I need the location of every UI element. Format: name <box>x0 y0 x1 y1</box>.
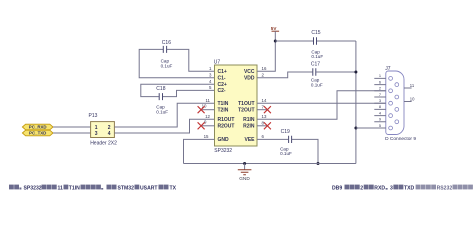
svg-text:0.1uF: 0.1uF <box>311 82 323 87</box>
wire PC_TXD to P13 pin3 <box>53 132 91 134</box>
wire stub pin8 R2IN <box>257 125 268 127</box>
svg-text:2: 2 <box>379 86 381 91</box>
svg-text:15: 15 <box>204 134 209 139</box>
IC U7 SP3232 <box>202 59 267 154</box>
svg-text:C2+: C2+ <box>218 82 227 88</box>
svg-text:7: 7 <box>379 92 381 97</box>
svg-text:T1OUT: T1OUT <box>238 101 254 107</box>
svg-text:T1IN: T1IN <box>218 101 229 107</box>
wire P13 pin2 to U7 T1IN <box>114 103 214 127</box>
svg-text:VEE: VEE <box>244 137 255 143</box>
wire junction to DB9 pin5 <box>356 127 386 129</box>
svg-text:Header 2X2: Header 2X2 <box>90 141 117 147</box>
svg-text:1: 1 <box>379 73 381 78</box>
svg-text:R1OUT: R1OUT <box>218 117 235 123</box>
svg-text:SP3232: SP3232 <box>24 185 42 191</box>
node C17 GND junction <box>354 71 357 74</box>
svg-text:SP3232: SP3232 <box>214 148 232 154</box>
svg-text:0.1uF: 0.1uF <box>311 54 323 59</box>
svg-text:T1IN: T1IN <box>69 185 80 191</box>
svg-text:10: 10 <box>202 103 207 108</box>
svg-text:14: 14 <box>262 98 267 103</box>
svg-text:STM32: STM32 <box>118 185 135 191</box>
wire P13 pin4 to U7 R1OUT <box>114 119 214 133</box>
wire stub pin10 T2IN <box>201 109 215 111</box>
svg-text:C2-: C2- <box>218 88 226 94</box>
svg-text:C15: C15 <box>311 30 320 36</box>
wire VCC pin16 to 5V <box>257 41 275 71</box>
svg-text:TXD: TXD <box>404 185 415 191</box>
svg-text:C18: C18 <box>156 86 165 92</box>
no-ERC marker pin8 <box>264 122 271 129</box>
svg-text:9: 9 <box>379 117 381 122</box>
svg-text:P13: P13 <box>89 113 98 119</box>
svg-text:C19: C19 <box>281 129 290 135</box>
svg-text:T2IN: T2IN <box>218 108 229 114</box>
wire bottom ground rail <box>184 163 356 165</box>
svg-text:PC_RXD: PC_RXD <box>29 125 47 130</box>
power 5V <box>271 26 279 41</box>
svg-text:C1+: C1+ <box>218 69 227 75</box>
capacitor C19 <box>257 129 318 163</box>
wire U7 pin15 GND to bottom rail <box>184 139 215 163</box>
svg-text:8: 8 <box>379 104 381 109</box>
node C19 ground junction <box>317 162 320 165</box>
node DB9 pin5 junction <box>354 127 357 130</box>
svg-text:2: 2 <box>360 185 363 191</box>
no-ERC marker pin10 <box>198 106 205 113</box>
svg-text:VDD: VDD <box>244 76 255 82</box>
svg-text:RS232: RS232 <box>437 185 453 191</box>
capacitor C17 <box>257 62 356 88</box>
svg-text:3: 3 <box>379 98 381 103</box>
svg-text:11: 11 <box>58 185 64 191</box>
wire stub pin7 T2OUT <box>257 109 268 111</box>
svg-text:GND: GND <box>218 137 230 143</box>
node 5V junction <box>274 40 277 43</box>
svg-text:0.1uF: 0.1uF <box>161 64 173 69</box>
net flag PC_TXD <box>22 130 53 136</box>
net flag PC_RXD <box>22 124 53 130</box>
wire PC_RXD to P13 pin1 <box>53 126 91 128</box>
svg-text:13: 13 <box>262 114 267 119</box>
svg-text:D Connector 9: D Connector 9 <box>385 136 416 142</box>
svg-text:R1IN: R1IN <box>243 117 255 123</box>
svg-text:USART: USART <box>140 185 158 191</box>
svg-text:5: 5 <box>379 123 381 128</box>
wire R1IN to DB9 pin2 <box>257 91 386 120</box>
svg-text:C16: C16 <box>162 40 171 46</box>
capacitor C16 <box>139 40 214 78</box>
wire stub pin9 R2OUT <box>201 125 215 127</box>
svg-text:TX: TX <box>170 185 177 191</box>
node GND symbol junction <box>243 162 246 165</box>
note text left <box>9 185 177 192</box>
wire GND vertical rail <box>355 41 357 164</box>
svg-text:RXD: RXD <box>374 185 385 191</box>
svg-text:12: 12 <box>205 114 210 119</box>
no-ERC marker pin7 <box>264 106 271 113</box>
svg-text:0.1uF: 0.1uF <box>280 151 292 156</box>
wire T1OUT to DB9 pin3 <box>257 102 386 104</box>
no-ERC marker pin9 <box>198 122 205 129</box>
svg-text:4: 4 <box>108 131 111 137</box>
connector J7 D Connector 9 <box>374 66 416 142</box>
svg-text:PC_TXD: PC_TXD <box>29 131 46 136</box>
header P13 <box>89 113 118 146</box>
ground GND symbol <box>238 164 252 182</box>
svg-text:11: 11 <box>205 98 210 103</box>
svg-text:5V: 5V <box>271 26 278 31</box>
svg-text:6: 6 <box>379 79 381 84</box>
svg-text:0.1uF: 0.1uF <box>156 109 168 114</box>
svg-text:3: 3 <box>390 185 393 191</box>
svg-text:C1-: C1- <box>218 76 226 82</box>
capacitor C15 <box>275 30 356 59</box>
capacitor C18 <box>141 84 215 114</box>
svg-text:10: 10 <box>410 96 415 101</box>
svg-text:GND: GND <box>239 176 250 181</box>
svg-text:16: 16 <box>262 66 267 71</box>
svg-text:11: 11 <box>410 83 415 88</box>
svg-text:DB9: DB9 <box>332 185 342 191</box>
svg-text:R2OUT: R2OUT <box>218 124 235 130</box>
svg-text:3: 3 <box>95 131 98 137</box>
svg-text:C17: C17 <box>311 62 320 68</box>
svg-text:VCC: VCC <box>244 69 255 75</box>
svg-text:R2IN: R2IN <box>243 124 255 130</box>
svg-text:T2OUT: T2OUT <box>238 108 254 114</box>
note text right <box>332 185 473 192</box>
svg-text:U7: U7 <box>214 59 221 65</box>
